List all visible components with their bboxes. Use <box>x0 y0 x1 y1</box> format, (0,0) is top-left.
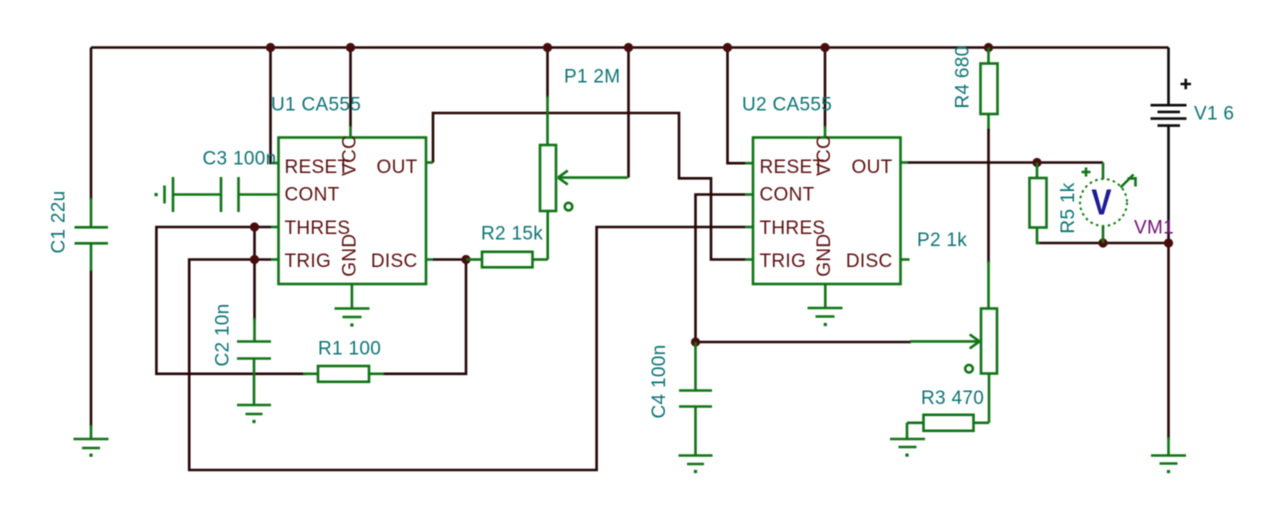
svg-text:V1 6: V1 6 <box>1194 104 1234 125</box>
svg-text:U1 CA555: U1 CA555 <box>271 95 361 116</box>
svg-text:C4 100n: C4 100n <box>649 345 670 419</box>
svg-text:R3 470: R3 470 <box>921 388 984 409</box>
svg-text:R1 100: R1 100 <box>318 339 381 360</box>
svg-text:CONT: CONT <box>760 185 815 206</box>
svg-text:U2 CA555: U2 CA555 <box>742 95 832 116</box>
svg-text:R4 680: R4 680 <box>953 45 974 108</box>
svg-text:R5 1k: R5 1k <box>1058 182 1079 233</box>
svg-text:CONT: CONT <box>285 185 340 206</box>
svg-text:DISC: DISC <box>371 251 418 272</box>
svg-text:GND: GND <box>814 234 835 277</box>
svg-text:VM1: VM1 <box>1134 218 1174 239</box>
svg-text:C3 100n: C3 100n <box>203 149 277 170</box>
svg-text:VCC: VCC <box>814 135 835 176</box>
svg-text:VCC: VCC <box>340 135 361 176</box>
svg-text:TRIG: TRIG <box>760 251 807 272</box>
svg-text:R2 15k: R2 15k <box>481 224 543 245</box>
svg-text:GND: GND <box>340 234 361 277</box>
svg-text:P2 1k: P2 1k <box>917 230 967 251</box>
svg-text:C2 10n: C2 10n <box>213 303 234 366</box>
svg-text:P1 2M: P1 2M <box>564 67 620 88</box>
svg-text:V: V <box>1091 183 1111 223</box>
svg-text:C1 22u: C1 22u <box>49 190 70 253</box>
svg-text:TRIG: TRIG <box>285 251 332 272</box>
svg-text:DISC: DISC <box>846 251 893 272</box>
svg-text:OUT: OUT <box>851 157 892 178</box>
svg-text:OUT: OUT <box>376 157 417 178</box>
